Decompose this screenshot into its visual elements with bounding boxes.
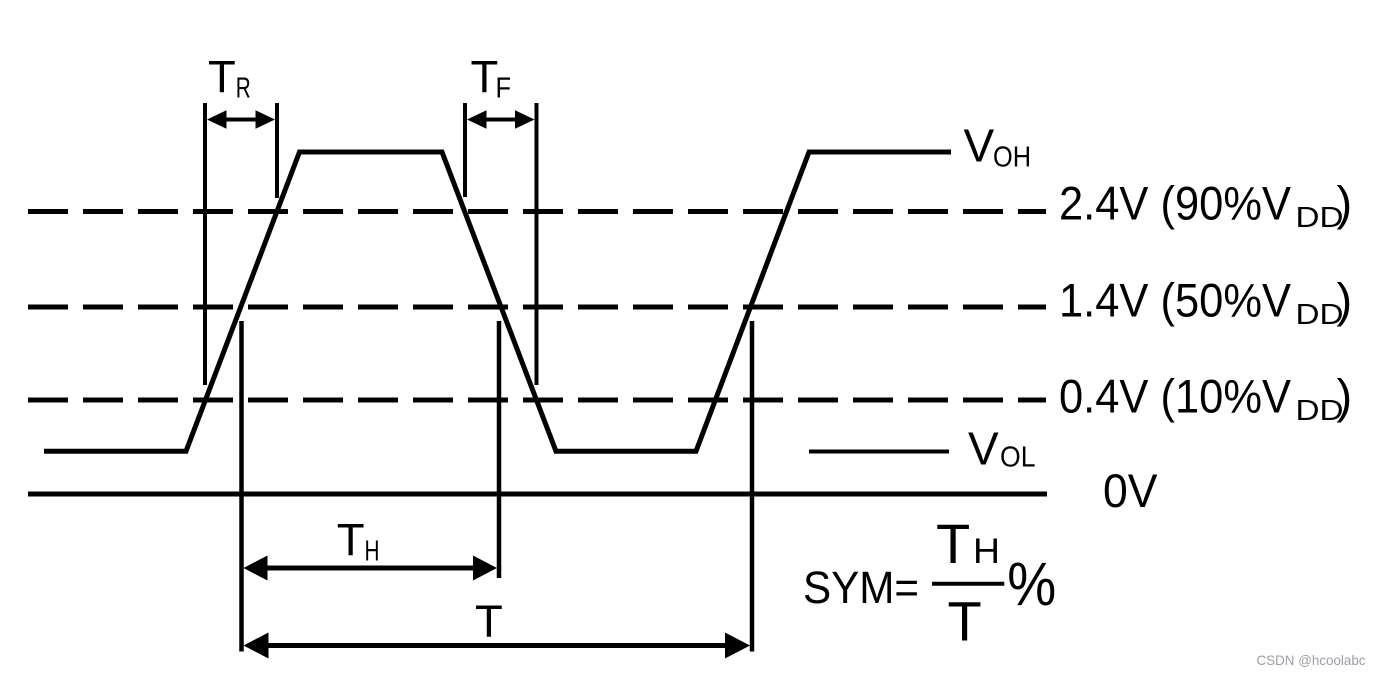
svg-text:R: R xyxy=(236,73,251,105)
VOL level reference segment xyxy=(809,450,949,454)
svg-text:V: V xyxy=(964,120,995,172)
tick TH end (50% crossing of falling edge) xyxy=(497,321,502,578)
svg-text:SYM=: SYM= xyxy=(803,562,919,613)
svg-text:2.4V (90%V: 2.4V (90%V xyxy=(1059,177,1292,230)
tick TR left (10% crossing of rising edge) xyxy=(203,103,207,385)
svg-text:0V: 0V xyxy=(1103,464,1158,517)
0V ground reference line xyxy=(28,492,1047,497)
TH measurement double arrow xyxy=(244,556,498,581)
svg-text:F: F xyxy=(496,73,512,105)
1.4V (50% VDD) threshold dashed line xyxy=(28,305,1046,310)
tick T end (50% crossing of second rising edge) xyxy=(750,321,755,652)
tick TF right (10% crossing of falling edge) xyxy=(535,103,539,385)
svg-text:1.4V (50%V: 1.4V (50%V xyxy=(1059,274,1292,327)
TF measurement double arrow xyxy=(467,110,535,129)
svg-text:T: T xyxy=(475,596,503,647)
svg-text:): ) xyxy=(1337,370,1353,423)
0.4V (10% VDD) threshold dashed line xyxy=(28,398,1046,403)
svg-text:T: T xyxy=(936,512,970,575)
formula fraction bar xyxy=(932,582,1004,586)
svg-text:): ) xyxy=(1337,177,1353,230)
svg-text:OH: OH xyxy=(993,142,1031,174)
svg-text:0.4V (10%V: 0.4V (10%V xyxy=(1059,370,1292,423)
svg-text:T: T xyxy=(948,590,982,653)
tick TF left (90% crossing of falling edge) xyxy=(463,103,467,197)
svg-text:T: T xyxy=(208,51,236,102)
TR measurement double arrow xyxy=(207,110,275,129)
label 2.4V (90%VDD) xyxy=(1059,177,1352,235)
svg-text:): ) xyxy=(1337,274,1353,327)
label 0.4V (10%VDD) xyxy=(1059,370,1352,428)
svg-text:V: V xyxy=(968,423,999,475)
signal waveform xyxy=(44,152,951,451)
svg-text:%: % xyxy=(1007,550,1056,618)
label 1.4V (50%VDD) xyxy=(1059,274,1352,332)
tick T start (50% crossing of first rising edge) xyxy=(239,321,244,652)
tick TR right (90% crossing of rising edge) xyxy=(275,103,279,198)
svg-text:H: H xyxy=(973,532,1000,571)
T measurement double arrow xyxy=(244,633,751,659)
svg-text:H: H xyxy=(365,536,380,568)
2.4V (90% VDD) threshold dashed line xyxy=(28,209,1046,214)
svg-text:CSDN @hcoolabc: CSDN @hcoolabc xyxy=(1257,652,1366,668)
svg-text:OL: OL xyxy=(1000,442,1036,474)
svg-text:T: T xyxy=(337,515,365,566)
svg-text:T: T xyxy=(471,51,499,102)
